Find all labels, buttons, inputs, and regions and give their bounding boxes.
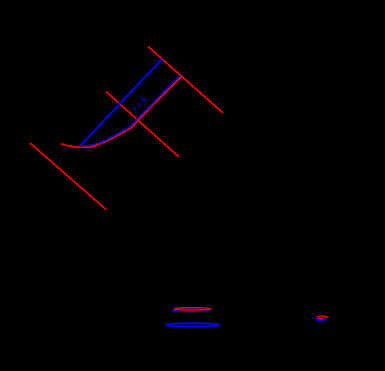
red null line C (bottom left) [30, 143, 106, 210]
medium ellipse pair: blue ellipse (lower left) [173, 309, 210, 311]
medium ellipse pair: red ellipse (upper right, drawn on top) [174, 308, 211, 310]
blue curve (upper of pair, hugging red curve) [82, 75, 180, 145]
small ellipse pair: red ellipse (upper right) [317, 316, 327, 318]
red null line B (middle) [106, 92, 179, 158]
large blue flattened ellipse [166, 323, 220, 326]
small ellipse pair: blue ellipse (lower left, drawn on top) [316, 318, 325, 321]
red null line A (top, outgoing) [148, 47, 223, 114]
blue straight line r=0 (center worldline) [80, 59, 162, 146]
red curve (star surface, lower of pair) [61, 77, 181, 147]
